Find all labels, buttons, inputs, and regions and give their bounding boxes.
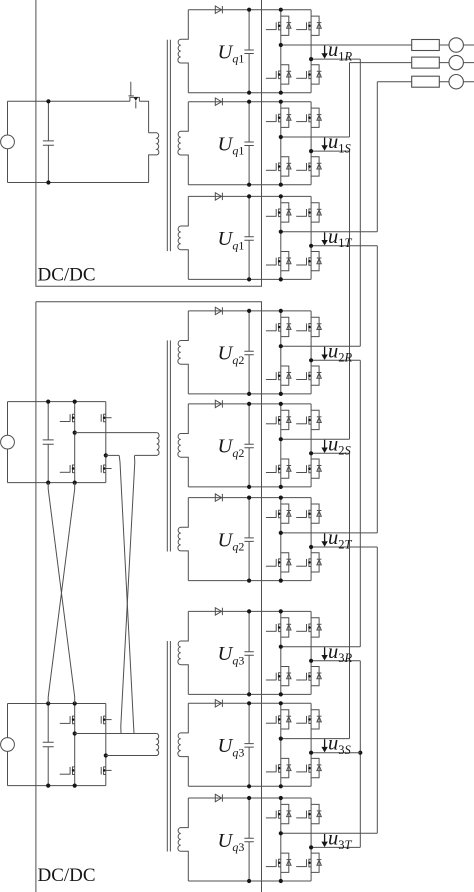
arrow u2T [324,534,326,542]
output filter rectangle phase T [412,76,440,87]
wire cell 3T right mid output [311,846,360,848]
wire cell 3R left mid output [281,646,361,648]
node cell 3S cap bottom [247,784,251,788]
node cell 2S right mid [309,451,313,455]
cell 3S bottom wire [188,785,311,787]
MOSFET cell 3R top-right with diode [296,618,321,637]
diode D2T [215,494,221,501]
node cell 2T cap top [247,496,251,500]
node cell 3T cap top [247,796,251,800]
node cell 3R cap top [247,609,251,613]
transformer T2 core [167,340,170,551]
bridge A left leg [74,402,76,483]
MOSFET cell 3R bottom-left with diode [266,667,291,686]
node C1 top [46,99,50,103]
node cell 1S left leg bottom [279,183,283,187]
cell 1R top wire [188,9,311,11]
node cell 3R left leg top [279,609,283,613]
cell 3T top wire [188,797,311,799]
phase T bus riser [376,82,378,232]
capacitor Uq3 (cell 3R) [244,611,253,694]
wire cell 2R left mid output [281,345,361,347]
node cell 3S right mid [309,751,313,755]
cell 3R bottom wire [188,693,311,695]
capacitor C1 [43,101,54,182]
arrow u3S [324,739,326,747]
cell 2T bottom wire [188,580,311,582]
arrow u1T [324,232,326,240]
transformer T3 core [167,641,170,852]
node bridge A left mid [73,431,77,435]
wire Q1 to T1 primary [139,101,148,133]
secondary winding T3 cell 3T [178,798,188,881]
cell 2S bottom wire [188,486,311,488]
cell 2T top wire [188,497,311,499]
capacitor Uq3 (cell 3S) [244,703,253,786]
wire cell 1T right mid output [311,245,377,247]
MOSFET cell 3S top-right with diode [296,710,321,729]
MOSFET cell 2S bottom-left with diode [266,459,291,478]
phase S output wire [350,62,474,64]
DC source bridge B circle [7,704,9,738]
MOSFET cell 1R bottom-right with diode [296,65,321,84]
wire cell 2T left mid output [281,532,378,534]
node neutral at 3S output [358,751,362,755]
node cell 3S left mid [279,737,283,741]
MOSFET cell 3S bottom-right with diode [296,758,321,777]
H-bridge cell 1S left leg [280,102,282,185]
wire cell 2R right mid output [311,359,360,361]
phase S chain wire 2S-3S [349,453,351,738]
transformer T1 core [167,40,170,251]
DC/DC converter box 1 (top) outline [36,0,262,286]
MOSFET cell 2S top-left with diode [266,410,291,429]
bridge A right leg [105,402,107,483]
MOSFET cell 1T bottom-left with diode [266,252,291,271]
node cell 2S left leg top [279,402,283,406]
node bridge A right mid [104,453,108,457]
MOSFET cell 2R bottom-left with diode [266,366,291,385]
transformer T2 primary winding [134,433,159,456]
node cell 2S left mid [279,437,283,441]
MOSFET cell 1R top-right with diode [296,16,321,35]
node cell 3T left mid [279,831,283,835]
secondary winding T1 cell 1S [178,102,188,185]
DC/DC converter box 2 (bottom) outline [36,302,262,892]
MOSFET cell 2R bottom-right with diode [296,366,321,385]
MOSFET cell 2T top-left with diode [266,504,291,523]
phase T chain wire 1T-2T [376,246,378,533]
MOSFET bridge A top-left [60,414,75,422]
node cell 3R left mid [279,645,283,649]
wire V1 bottom rail [8,182,149,184]
wire cell 3S left mid output [281,738,350,740]
cell 1T bottom wire [188,278,311,280]
node cell 1T left leg bottom [279,277,283,281]
capacitor Uq2 (cell 2R) [244,311,253,394]
H-bridge cell 2S right leg [310,404,312,487]
cell 3R top wire [188,610,311,612]
MOSFET cell 1S bottom-right with diode [296,157,321,176]
node bridge B left leg top [73,701,77,705]
H-bridge cell 3R right leg [310,611,312,694]
H-bridge cell 2T left leg [280,498,282,581]
secondary winding T1 cell 1T [178,196,188,279]
node bridge B cap top [46,701,50,705]
phase T output wire [377,81,474,83]
node cell 2R cap top [247,309,251,313]
svg-text:DC/DC: DC/DC [38,865,96,886]
phase R output wire [281,44,474,46]
diode D1S [215,98,221,105]
wire cell 3R right mid output [311,660,360,662]
H-bridge cell 1T right leg [310,196,312,279]
wire cell 1R right mid output [311,58,360,60]
node cell 2T left leg bottom [279,579,283,583]
MOSFET cell 3S bottom-left with diode [266,758,291,777]
arrow u1S [324,138,326,146]
MOSFET cell 1T top-left with diode [266,203,291,222]
node cell 1S cap bottom [247,183,251,187]
H-bridge cell 2R left leg [280,311,282,394]
MOSFET cell 1S bottom-left with diode [266,157,291,176]
bridge B left leg [74,704,76,786]
cell 2R bottom wire [188,393,311,395]
node cell 1R right mid [309,57,313,61]
secondary winding T3 cell 3S [178,703,188,786]
node bridge B left leg bottom [73,784,77,788]
node cell 3R cap bottom [247,692,251,696]
MOSFET cell 3R bottom-right with diode [296,667,321,686]
node cell 3T left leg bottom [279,879,283,883]
cell 1R bottom wire [188,92,311,94]
node cell 1S left mid [279,135,283,139]
cell 2S top wire [188,403,311,405]
H-bridge cell 3S right leg [310,703,312,786]
secondary winding T2 cell 2S [178,404,188,487]
cell 2R top wire [188,310,311,312]
MOSFET cell 2T bottom-left with diode [266,553,291,572]
arrow u3R [324,647,326,655]
capacitor Uq1 (cell 1T) [244,196,253,279]
wire bridge B top rail [8,703,106,705]
secondary winding T3 cell 3R [178,611,188,694]
node cell 2S cap top [247,402,251,406]
phase S chain wire 1S-2S [349,151,351,439]
node cell 1R cap bottom [247,91,251,95]
MOSFET cell 1T top-right with diode [296,203,321,222]
capacitor Uq1 (cell 1S) [244,102,253,185]
wire cell 2S right mid output [311,452,349,454]
output terminal circle phase R [449,38,463,52]
capacitor bridge A input [43,402,54,483]
MOSFET cell 3T bottom-right with diode [296,853,321,872]
diode D2R [215,307,221,314]
arrow u2S [324,440,326,448]
diode D3T [215,794,221,801]
diode D3S [215,700,221,707]
MOSFET cell 1S top-left with diode [266,108,291,127]
node cell 3S left leg top [279,701,283,705]
node cell 3R right mid [309,659,313,663]
transformer T1 primary winding [149,133,159,183]
node bridge B cap bottom [46,784,50,788]
node cell 1R left leg top [279,8,283,12]
node cell 1R left leg bottom [279,91,283,95]
MOSFET cell 1S top-right with diode [296,108,321,127]
MOSFET bridge A top-right [101,414,111,422]
H-bridge cell 2R right leg [310,311,312,394]
DC source V1 circle [7,101,9,135]
MOSFET cell 2S bottom-right with diode [296,459,321,478]
MOSFET cell 1R top-left with diode [266,16,291,35]
MOSFET bridge B top-right [101,716,111,724]
node C1 bottom [46,180,50,184]
secondary winding T2 cell 2R [178,311,188,394]
H-bridge cell 2T right leg [310,498,312,581]
phase R chain wire 1R-2R [359,59,361,346]
node cell 3T left leg top [279,796,283,800]
cell 1S bottom wire [188,184,311,186]
MOSFET bridge A bottom-left [60,465,75,473]
output filter rectangle phase R [412,40,440,51]
diode D3R [215,608,221,615]
node cell 2T cap bottom [247,579,251,583]
H-bridge cell 2S left leg [280,404,282,487]
node bridge A cap top [46,400,50,404]
node cell 1T cap bottom [247,277,251,281]
MOSFET cell 3R top-left with diode [266,618,291,637]
wire bridge B bottom rail [8,785,106,787]
cell 3S top wire [188,702,311,704]
node cell 2T right mid [309,545,313,549]
MOSFET cell 3T bottom-left with diode [266,853,291,872]
MOSFET cell 3T top-left with diode [266,804,291,823]
MOSFET bridge B bottom-left [60,767,75,775]
MOSFET bridge B bottom-right [101,767,111,775]
capacitor Uq2 (cell 2T) [244,498,253,581]
MOSFET cell 2R top-left with diode [266,317,291,336]
diode D1T [215,193,221,200]
MOSFET Q1 [130,97,140,101]
phase S bus riser [349,63,351,137]
crossing wire bridge A cap-bottom to bridge B left-leg-top [48,483,74,704]
cell 1S top wire [188,101,311,103]
secondary winding T2 cell 2T [178,498,188,581]
crossing wire bridge A left-leg-bottom to bridge B cap-top [48,483,74,704]
wire bridge B left mid to T3 primary [75,733,157,735]
node cell 2R left mid [279,344,283,348]
node cell 3S left leg bottom [279,784,283,788]
output filter rectangle phase S [412,57,440,68]
bridge B right leg [105,704,107,786]
node cell 1S right mid [309,149,313,153]
wire bridge A left mid to T2 primary [75,432,157,434]
node cell 1T left leg top [279,194,283,198]
diode D2S [215,400,221,407]
wire cell 3T left mid output [281,832,378,834]
crossing wire bridge A right mid down to bridge B left mid wire [119,455,134,733]
wire cell 2T right mid output [311,546,377,548]
arrow u2R [324,347,326,355]
node cell 1S left leg top [279,100,283,104]
wire cell 1S left mid output [281,136,350,138]
node cell 1R cap top [247,8,251,12]
wire cell 2S left mid output [281,438,350,440]
crossing wire T2 primary bottom down to bridge B left mid wire [121,456,135,734]
capacitor bridge B input [43,704,54,786]
H-bridge cell 1R right leg [310,10,312,93]
node cell 2T left mid [279,531,283,535]
MOSFET cell 2T bottom-right with diode [296,553,321,572]
MOSFET cell 1T bottom-right with diode [296,252,321,271]
wire bridge A right mid stub [106,454,119,456]
H-bridge cell 3T left leg [280,798,282,881]
MOSFET cell 1R bottom-left with diode [266,65,291,84]
wire bridge A top rail [8,401,106,403]
capacitor Uq1 (cell 1R) [244,10,253,93]
node bridge A left leg top [73,400,77,404]
wire V1 top rail [8,100,130,102]
H-bridge cell 3T right leg [310,798,312,881]
H-bridge cell 1R left leg [280,10,282,93]
node bridge A left leg bottom [73,481,77,485]
node cell 2S left leg bottom [279,485,283,489]
capacitor Uq2 (cell 2S) [244,404,253,487]
node cell 1T left mid [279,230,283,234]
output terminal circle phase S [449,55,463,69]
node cell 2R cap bottom [247,392,251,396]
H-bridge cell 1S right leg [310,102,312,185]
node cell 1T cap top [247,194,251,198]
MOSFET bridge A bottom-right [101,465,111,473]
wire cell 1T left mid output [281,231,378,233]
arrow u3T [324,834,326,842]
H-bridge cell 3S left leg [280,703,282,786]
node cell 2T left leg top [279,496,283,500]
node bridge B left mid [73,731,77,735]
wire cell 1S right mid output [311,150,349,152]
cell 3T bottom wire [188,880,311,882]
arrow u1R [324,46,326,54]
node cell 3T cap bottom [247,879,251,883]
neutral tie wire 3R-3S-3T [359,661,361,848]
transformer T3 primary winding [106,734,159,756]
svg-text:DC/DC: DC/DC [38,265,96,286]
node cell 2R left leg bottom [279,392,283,396]
node bridge B right mid [104,753,108,757]
node cell 3R left leg bottom [279,692,283,696]
wire cell 3S right mid output [311,752,360,754]
cell 1T top wire [188,195,311,197]
node cell 2R left leg top [279,309,283,313]
node cell 2S cap bottom [247,485,251,489]
output terminal circle phase T [449,75,463,89]
capacitor Uq3 (cell 3T) [244,798,253,881]
DC source bridge A circle [7,402,9,436]
MOSFET cell 3S top-left with diode [266,710,291,729]
node cell 2R right mid [309,358,313,362]
MOSFET cell 2T top-right with diode [296,504,321,523]
diode D1R [215,6,221,13]
secondary winding T1 cell 1R [178,10,188,93]
phase R chain wire 2R-3R [359,360,361,646]
node cell 1R left mid [279,43,283,47]
node cell 3T right mid [309,845,313,849]
node bridge A cap bottom [46,481,50,485]
H-bridge cell 3R left leg [280,611,282,694]
node cell 1T right mid [309,244,313,248]
wire bridge A bottom rail [8,482,106,484]
phase T chain wire 2T-3T [376,547,378,833]
MOSFET bridge B top-left [60,716,75,724]
node cell 3S cap top [247,701,251,705]
node cell 1S cap top [247,100,251,104]
MOSFET cell 2R top-right with diode [296,317,321,336]
MOSFET cell 3T top-right with diode [296,804,321,823]
MOSFET cell 2S top-right with diode [296,410,321,429]
H-bridge cell 1T left leg [280,196,282,279]
